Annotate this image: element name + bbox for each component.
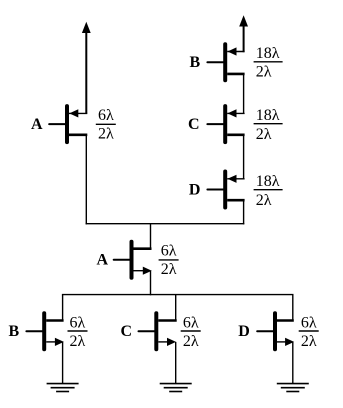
svg-text:A: A — [97, 251, 109, 268]
svg-text:2λ: 2λ — [70, 333, 86, 350]
pmos D (pull-up, gate D, 18λ/2λ) — [207, 172, 244, 208]
wire: nmos D source down to ground — [292, 342, 294, 384]
size label 6λ/2λ (pull-up pmos A) — [96, 107, 116, 142]
wire: bus down to nmos D drain — [292, 295, 294, 322]
size label 6λ/2λ (pull-down nmos D) — [299, 315, 319, 350]
svg-text:B: B — [9, 323, 20, 340]
wire: node N1 tap down to nmos A drain — [150, 224, 152, 250]
wire: pmos A drain down to node N1 — [85, 135, 87, 225]
pmos A (pull-up, gate A, 6λ/2λ) — [49, 106, 87, 142]
svg-text:18λ: 18λ — [256, 45, 280, 62]
node N1: horizontal wire joining both pull-up branches — [86, 223, 245, 225]
svg-text:2λ: 2λ — [161, 261, 177, 278]
wire: bus down to nmos B drain — [62, 295, 64, 322]
size label 6λ/2λ (series nmos A) — [159, 243, 179, 278]
VDD arrow (left branch power symbol) — [82, 22, 91, 114]
nmos A (series, gate A, 6λ/2λ) — [114, 242, 152, 278]
size label 18λ/2λ (pull-up pmos C) — [254, 107, 283, 143]
svg-text:6λ: 6λ — [183, 315, 199, 332]
svg-text:2λ: 2λ — [98, 126, 114, 143]
ground (under nmos C) — [160, 384, 192, 392]
nmos D (pull-down, gate D, 6λ/2λ) — [257, 313, 294, 349]
svg-text:C: C — [121, 323, 133, 340]
node N2: horizontal bus joining parallel nmos drains — [62, 294, 294, 296]
svg-text:2λ: 2λ — [256, 64, 272, 81]
svg-text:D: D — [189, 181, 201, 198]
pmos B (pull-up, gate B, 18λ/2λ) — [207, 44, 244, 80]
svg-text:B: B — [190, 54, 201, 71]
nmos C (pull-down, gate C, 6λ/2λ) — [139, 313, 177, 349]
size label 18λ/2λ (pull-up pmos B) — [254, 45, 283, 80]
ground (under nmos D) — [277, 384, 309, 392]
svg-text:2λ: 2λ — [256, 126, 272, 143]
svg-text:6λ: 6λ — [301, 315, 317, 332]
svg-text:6λ: 6λ — [98, 107, 114, 124]
VDD arrow (right branch power symbol) — [239, 15, 248, 52]
svg-text:18λ: 18λ — [256, 107, 280, 124]
svg-text:18λ: 18λ — [256, 173, 280, 190]
svg-text:A: A — [31, 116, 43, 133]
wire: nmos B source down to ground — [62, 342, 64, 384]
wire: nmos A source down to node N2 bus — [150, 271, 152, 296]
wire: pmos D drain down to node N1 — [243, 200, 245, 224]
svg-text:6λ: 6λ — [161, 243, 177, 260]
wire: bus down to nmos C drain — [175, 295, 177, 322]
pmos C (pull-up, gate C, 18λ/2λ) — [207, 106, 244, 142]
svg-text:2λ: 2λ — [301, 333, 317, 350]
wire: pmos B drain to pmos C source — [243, 74, 245, 114]
wire: nmos C source down to ground — [175, 342, 177, 384]
ground (under nmos B) — [47, 384, 79, 392]
wire: pmos C drain to pmos D source — [243, 135, 245, 179]
size label 18λ/2λ (pull-up pmos D) — [254, 173, 283, 209]
svg-text:6λ: 6λ — [70, 315, 86, 332]
svg-text:2λ: 2λ — [183, 333, 199, 350]
svg-text:2λ: 2λ — [256, 192, 272, 209]
svg-text:C: C — [188, 116, 200, 133]
nmos B (pull-down, gate B, 6λ/2λ) — [26, 313, 64, 349]
svg-text:D: D — [238, 323, 250, 340]
size label 6λ/2λ (pull-down nmos C) — [181, 315, 201, 350]
size label 6λ/2λ (pull-down nmos B) — [68, 315, 88, 350]
